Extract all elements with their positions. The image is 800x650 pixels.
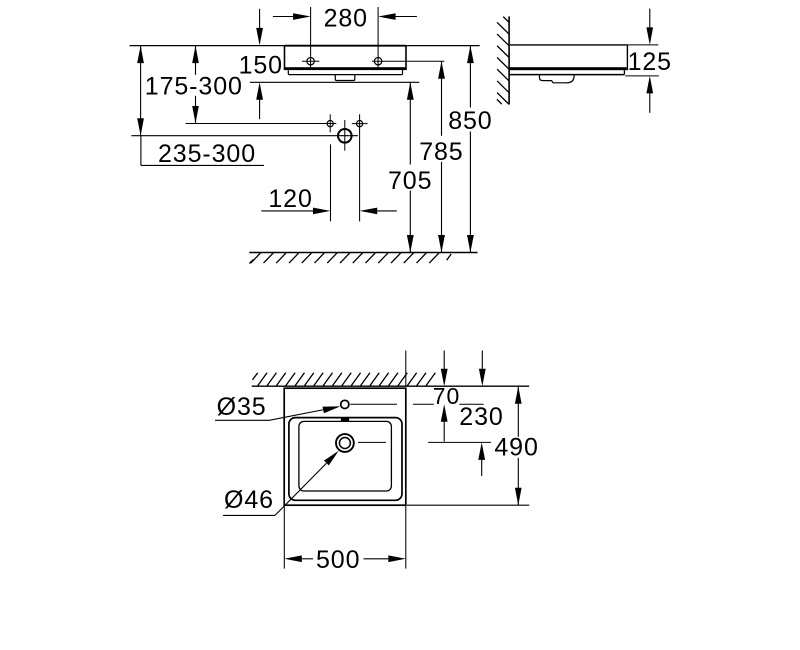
supply connection left (front view) <box>327 114 333 132</box>
dimension 280 <box>273 4 417 32</box>
dimension 705 <box>388 82 432 252</box>
wall hatching (side view) <box>497 17 509 105</box>
bowl inner outline (plan view) <box>299 421 392 491</box>
floor hatching <box>249 253 451 264</box>
dimension 235-300 <box>137 46 144 136</box>
wall line (plan view) <box>252 385 530 387</box>
basin lower rim (front view) <box>288 70 402 75</box>
dimension 70 <box>433 351 460 442</box>
reference line 705 level <box>250 81 419 83</box>
svg-text:280: 280 <box>324 4 368 32</box>
drain trap profile (side view) <box>540 75 575 83</box>
dimension 175-300 <box>145 46 243 124</box>
svg-text:235-300: 235-300 <box>158 140 256 168</box>
reference line 175-300 level <box>186 123 337 125</box>
extension line right hole <box>377 7 379 69</box>
wall hatching (plan view) <box>252 373 435 387</box>
label diameter 46 with leader <box>223 451 339 516</box>
wall line (front view) <box>130 45 480 47</box>
svg-text:150: 150 <box>239 51 283 79</box>
svg-text:850: 850 <box>448 107 492 135</box>
basin body (front view) <box>285 46 407 71</box>
svg-text:Ø35: Ø35 <box>217 393 267 421</box>
dimension 500 <box>284 546 406 574</box>
svg-text:500: 500 <box>316 546 360 574</box>
reference line 235-300 level <box>131 135 358 137</box>
faucet hole (plan view) <box>341 400 349 408</box>
faucet hole right (front view) <box>374 58 381 65</box>
extension line left hole <box>310 7 312 69</box>
svg-text:125: 125 <box>628 48 672 76</box>
svg-text:175-300: 175-300 <box>145 72 243 100</box>
wall line (side view) <box>508 16 510 104</box>
floor line <box>249 252 477 254</box>
extension line through right hole to 785 dim <box>372 60 444 62</box>
svg-text:705: 705 <box>388 167 432 195</box>
dimension 125 <box>625 9 672 113</box>
extension line basin left down <box>283 505 285 568</box>
extension of basin right edge above wall <box>405 351 407 387</box>
dimension 785 <box>419 61 463 252</box>
svg-text:Ø46: Ø46 <box>224 486 274 514</box>
extension line right supply down <box>359 114 361 221</box>
faucet hole left (front view) <box>302 58 320 65</box>
label diameter 35 with leader <box>215 393 340 421</box>
basin lower rim (side view) <box>509 70 624 74</box>
dimension 490 <box>494 386 540 505</box>
drain tab (front view) <box>335 75 355 81</box>
svg-text:230: 230 <box>459 403 503 431</box>
extension line left supply down <box>330 144 332 221</box>
label 235-300 with leader <box>141 136 264 168</box>
drain (plan view) <box>336 434 354 452</box>
overflow tick mark (plan view) <box>341 417 349 421</box>
drain outlet (front view) <box>338 120 352 151</box>
svg-text:490: 490 <box>494 433 538 461</box>
basin outline (plan view) <box>284 388 406 505</box>
svg-text:70: 70 <box>433 383 460 409</box>
dimension 120 <box>261 185 397 214</box>
dimension 850 <box>448 46 492 253</box>
dimension 230 <box>459 351 503 477</box>
extension line basin bottom (plan view) <box>407 504 529 506</box>
supply connection right (front view) <box>352 121 368 127</box>
svg-text:120: 120 <box>268 185 312 213</box>
bowl outer outline (plan view) <box>289 418 402 501</box>
extension line basin right down <box>405 505 407 568</box>
svg-text:785: 785 <box>419 138 463 166</box>
faucet hole center line (plan view) <box>350 403 484 405</box>
drain center line (plan view) <box>358 441 491 443</box>
basin body (side view) <box>509 45 627 70</box>
dimension 150 <box>239 9 283 119</box>
